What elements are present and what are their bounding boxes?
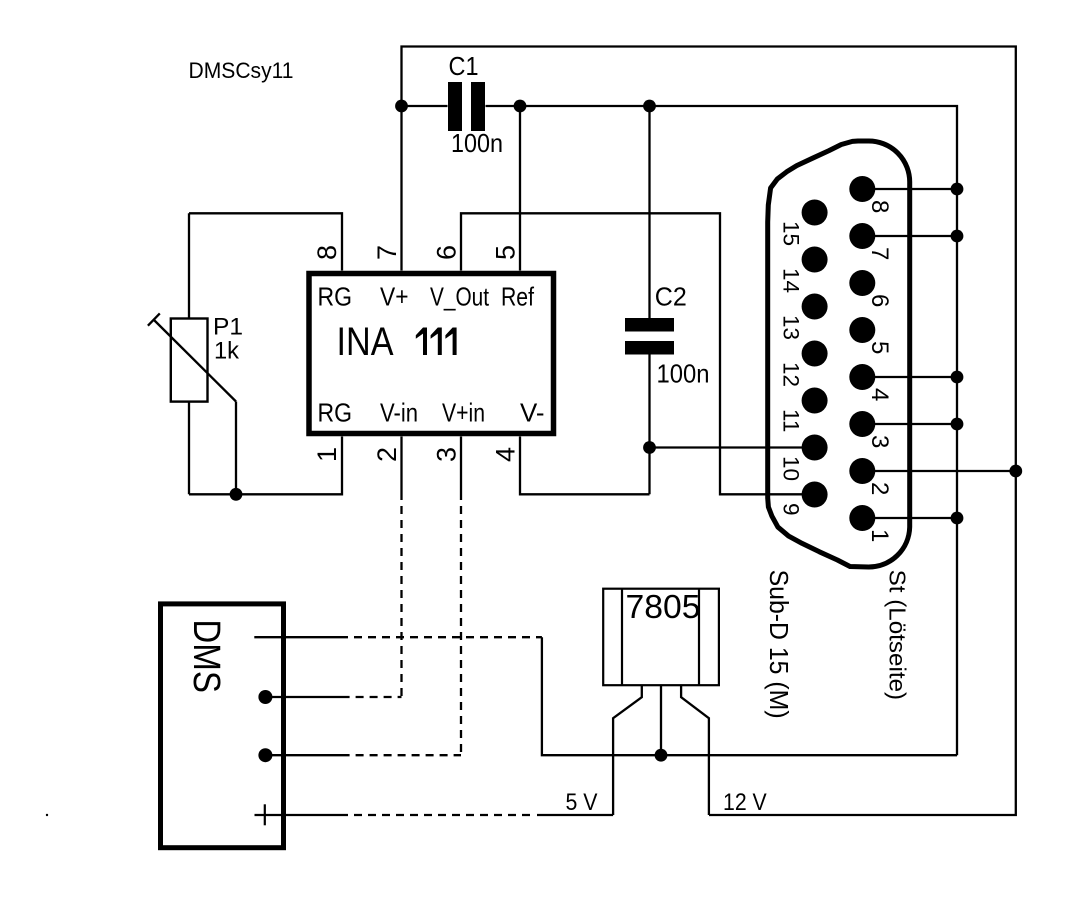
svg-text:2: 2 <box>372 447 402 462</box>
wire: SubD pin7 to right bus <box>862 235 957 237</box>
7805 left leg <box>613 685 642 815</box>
svg-text:1k: 1k <box>214 338 240 365</box>
box DMS <box>161 604 284 848</box>
wire: pin3 V+in solid stub <box>460 437 462 501</box>
capacitor C1 <box>448 51 503 158</box>
wire: C2 junction to SubD pin10 <box>650 446 811 448</box>
svg-text:100n: 100n <box>451 128 503 158</box>
SubD pin 5 <box>849 317 875 343</box>
7805 inner right line <box>698 589 700 686</box>
potentiometer P1 <box>148 313 236 401</box>
node: right bus pin7 <box>951 230 964 243</box>
svg-text:7805: 7805 <box>626 588 701 625</box>
node: right bus pin3 <box>951 418 964 431</box>
svg-text:C1: C1 <box>449 51 479 81</box>
svg-text:9: 9 <box>779 503 804 516</box>
wire: C2 vertical bottom <box>648 355 650 495</box>
svg-text:P1: P1 <box>213 314 243 341</box>
wire: P1 left vertical top <box>188 213 190 318</box>
svg-text:1: 1 <box>312 447 342 462</box>
svg-text:12: 12 <box>779 362 804 387</box>
wire: DMS line2 dashed <box>350 696 402 698</box>
wire: SubD pin8 to right bus <box>862 188 957 190</box>
node: 7805 GND junction <box>655 749 668 762</box>
SubD pin 6 <box>849 270 875 296</box>
wire: pin6 V_Out up right and down to SubD pin9 <box>461 213 810 494</box>
wire: GND net down and across to right bus <box>542 637 957 755</box>
wire: pin3 V+in dashed <box>460 500 462 755</box>
svg-text:RG: RG <box>318 398 353 428</box>
SubD pin 9 <box>802 482 828 508</box>
7805 package body <box>603 589 719 686</box>
wire: C1/ref net horizontal right segment to right bus <box>486 106 958 755</box>
svg-text:V+: V+ <box>380 282 409 312</box>
wire: DMS line3 solid stub <box>265 754 349 756</box>
SubD pin 4 <box>849 364 875 390</box>
wire: DMS line1 solid stub <box>254 636 348 638</box>
svg-text:11: 11 <box>779 409 804 432</box>
svg-text:4: 4 <box>491 447 521 462</box>
wire: pin2 V-in solid stub <box>400 437 402 501</box>
speck artifact <box>46 814 48 816</box>
wire: pin4 V- down right to C2 bottom <box>520 437 650 495</box>
node: far right bus pin2 <box>1009 465 1022 478</box>
wire: DMS plus line solid stub <box>275 814 348 816</box>
node: P1 wiper junction <box>230 488 243 501</box>
svg-text:6: 6 <box>866 294 893 307</box>
svg-text:V-: V- <box>520 398 545 428</box>
svg-text:3: 3 <box>866 435 893 448</box>
svg-text:10: 10 <box>779 456 804 481</box>
wire: P1 wiper down <box>235 402 237 495</box>
svg-text:Sub-D 15 (M): Sub-D 15 (M) <box>764 570 794 719</box>
wire: pin5 Ref vertical <box>519 106 521 271</box>
wire: DMS line1 dashed <box>348 636 542 638</box>
svg-text:5 V: 5 V <box>566 789 598 816</box>
SubD pin 12 <box>802 341 828 367</box>
7805 right leg <box>681 685 709 815</box>
wire: SubD pin1 to right bus <box>862 517 957 519</box>
wire: SubD pin3 to right bus <box>862 423 957 425</box>
svg-text:12 V: 12 V <box>723 789 767 816</box>
wire: DMS line3 dashed <box>350 754 461 756</box>
svg-text:St (Lötseite): St (Lötseite) <box>885 570 911 701</box>
DMS plus terminal <box>255 804 276 825</box>
SubD pin 2 <box>849 458 875 484</box>
wire: V+ net top loop, pin7 up, across top, down right edge <box>402 47 1016 816</box>
7805 inner left line <box>621 589 623 686</box>
svg-text:INA: INA <box>337 320 394 364</box>
svg-text:5: 5 <box>866 341 893 354</box>
connector J1 Sub-D 15 outline <box>768 141 910 567</box>
wire: DMS plus line dashed <box>348 814 536 816</box>
svg-text:100n: 100n <box>657 359 710 389</box>
wire: C1/ref net horizontal left segment <box>402 105 448 107</box>
svg-text:2: 2 <box>866 482 893 495</box>
svg-text:1: 1 <box>866 529 893 542</box>
SubD pin 14 <box>802 247 828 273</box>
SubD pin 8 <box>849 176 875 202</box>
svg-text:3: 3 <box>432 447 462 462</box>
svg-text:V+in: V+in <box>442 398 485 428</box>
wire: pin2 V-in dashed <box>400 500 402 697</box>
node: right bus pin1 <box>951 512 964 525</box>
regulator U2 7805 <box>603 589 719 815</box>
svg-text:7: 7 <box>372 245 402 260</box>
svg-text:7: 7 <box>866 247 893 260</box>
SubD pin 15 <box>802 200 828 226</box>
wire: DMS line2 solid stub <box>265 696 349 698</box>
svg-text:V-in: V-in <box>380 398 418 428</box>
node: C1 left junction <box>395 100 408 113</box>
svg-text:C2: C2 <box>655 282 687 312</box>
svg-text:14: 14 <box>779 268 804 293</box>
DMS terminal dot upper <box>258 690 272 704</box>
DMS terminal dot lower <box>258 748 272 762</box>
svg-text:DMSCsy11: DMSCsy11 <box>189 58 294 83</box>
7805 middle leg <box>660 685 662 755</box>
svg-text:5: 5 <box>491 245 521 260</box>
node: C2 top junction <box>643 100 656 113</box>
svg-text:4: 4 <box>866 388 893 401</box>
node: right bus pin4 <box>951 371 964 384</box>
node: C1 right junction <box>514 100 527 113</box>
wire: C2 vertical top <box>648 106 650 318</box>
svg-text:RG: RG <box>318 282 353 312</box>
svg-text:8: 8 <box>866 200 893 213</box>
SubD pin 11 <box>802 388 828 414</box>
SubD pin 1 <box>849 505 875 531</box>
wire: P1 bottom wire to pin1 <box>189 437 342 495</box>
SubD pin 3 <box>849 411 875 437</box>
wire: SubD pin4 to right bus <box>862 376 957 378</box>
capacitor C2 <box>625 282 710 389</box>
node: right bus pin8 <box>951 183 964 196</box>
svg-text:8: 8 <box>312 245 342 260</box>
wire: P1 left vertical bottom <box>188 402 190 495</box>
SubD pin 7 <box>849 223 875 249</box>
op-amp U1 INA 111 <box>309 274 554 434</box>
wire: SubD pin2 to far right bus <box>862 470 1016 472</box>
SubD pin 13 <box>802 294 828 320</box>
svg-text:DMS: DMS <box>185 619 227 693</box>
svg-text:V_Out: V_Out <box>430 282 490 312</box>
wire: P1 top wire to pin8 <box>189 213 342 270</box>
node: C2 bottom junction <box>643 441 656 454</box>
svg-text:13: 13 <box>779 315 804 340</box>
SubD pin 10 <box>802 435 828 461</box>
svg-text:Ref: Ref <box>501 282 535 312</box>
wire: 5V wire to 7805 left leg <box>537 814 613 816</box>
svg-text:15: 15 <box>779 221 804 246</box>
svg-text:6: 6 <box>432 245 462 260</box>
